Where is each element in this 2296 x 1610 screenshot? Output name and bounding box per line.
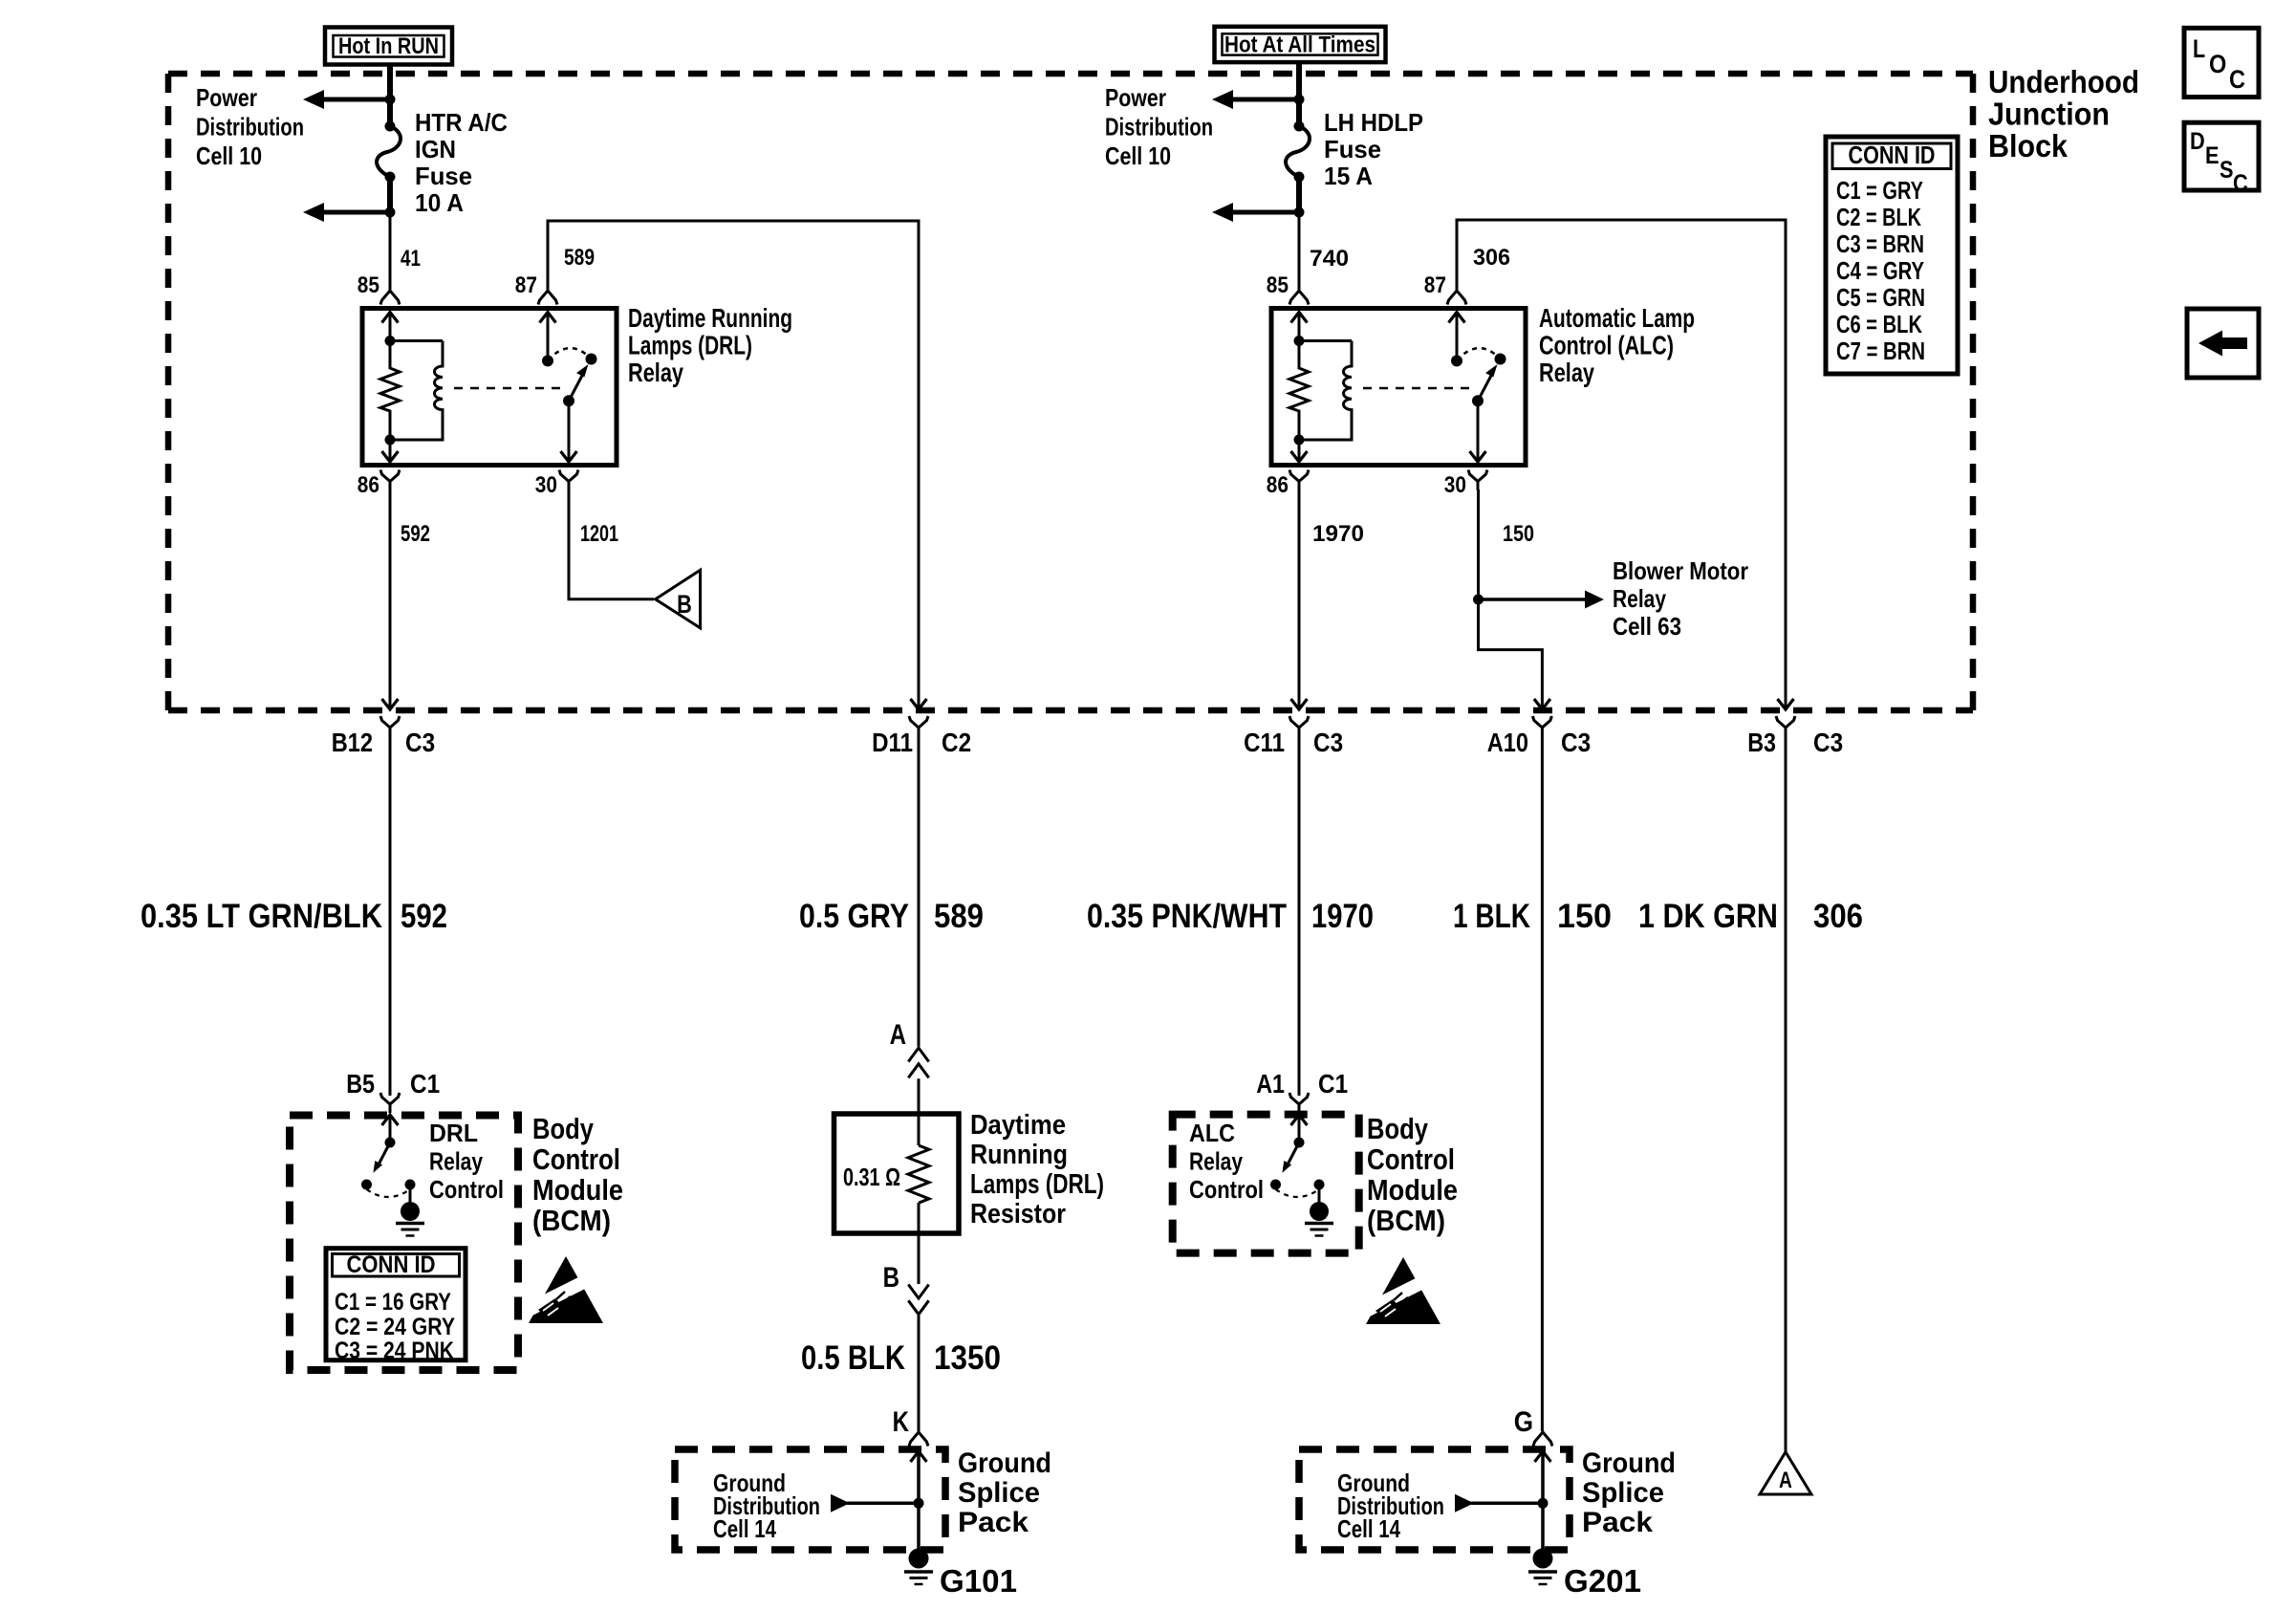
svg-text:HTR A/C: HTR A/C xyxy=(415,108,508,137)
svg-text:IGN: IGN xyxy=(415,135,456,163)
connector D11/C2 crossing xyxy=(909,699,928,736)
fuse HTR A/C IGN 10A with feed wire and power distribution taps xyxy=(303,63,401,305)
svg-text:A: A xyxy=(1779,1468,1792,1493)
svg-text:C3 = 24 PNK: C3 = 24 PNK xyxy=(335,1338,454,1364)
symbol ESD warning (left) xyxy=(529,1256,603,1323)
svg-text:C1 = GRY: C1 = GRY xyxy=(1836,176,1923,205)
connector C11/C3 crossing xyxy=(1289,699,1309,736)
wire 1350 segment below resistor xyxy=(918,1203,921,1284)
svg-text:Underhood: Underhood xyxy=(1988,64,2139,99)
symbol ESD warning (right) xyxy=(1366,1257,1440,1324)
svg-text:10 A: 10 A xyxy=(415,188,464,217)
svg-text:C1 = 16 GRY: C1 = 16 GRY xyxy=(335,1289,451,1316)
switch ALC relay control with ground xyxy=(1270,1115,1333,1236)
svg-text:ALC: ALC xyxy=(1189,1119,1235,1147)
connector A10/C3 crossing xyxy=(1532,699,1551,736)
svg-text:Distribution: Distribution xyxy=(196,113,304,141)
svg-text:0.35 LT GRN/BLK: 0.35 LT GRN/BLK xyxy=(141,898,382,935)
svg-text:C: C xyxy=(2233,170,2248,197)
module BCM (right) dashed box xyxy=(1173,1115,1359,1253)
connector B3/C3 crossing xyxy=(1776,699,1795,736)
svg-text:Control: Control xyxy=(429,1175,504,1204)
svg-text:0.5 GRY: 0.5 GRY xyxy=(799,898,909,935)
junction blower motor tap xyxy=(1473,595,1484,605)
wire 306 segment from ALC pin 87 up and across xyxy=(1457,220,1786,708)
svg-text:740: 740 xyxy=(1310,246,1349,272)
svg-text:Ground: Ground xyxy=(1582,1447,1676,1479)
wire 592 segment inside junction block xyxy=(389,490,392,708)
svg-text:B5: B5 xyxy=(346,1069,375,1099)
svg-text:Hot At All Times: Hot At All Times xyxy=(1224,33,1375,58)
svg-text:C1: C1 xyxy=(1318,1069,1348,1099)
connector A in-line chevrons xyxy=(908,1048,928,1077)
svg-text:Junction: Junction xyxy=(1988,97,2110,132)
svg-text:Power: Power xyxy=(196,83,257,112)
svg-text:C5 = GRN: C5 = GRN xyxy=(1836,283,1925,312)
wire 1350 segment to ground splice pack xyxy=(918,1316,921,1431)
wire 306 segment below junction block xyxy=(1785,736,1787,1452)
svg-text:Resistor: Resistor xyxy=(970,1199,1066,1229)
svg-text:C2 = BLK: C2 = BLK xyxy=(1836,203,1921,231)
wire 589 segment from pin 87 up and across xyxy=(548,221,919,708)
svg-text:589: 589 xyxy=(934,898,984,935)
svg-text:Control: Control xyxy=(1367,1142,1455,1176)
svg-text:C3: C3 xyxy=(1313,728,1343,757)
svg-text:C3 = BRN: C3 = BRN xyxy=(1836,229,1924,258)
svg-text:Cell 14: Cell 14 xyxy=(1337,1514,1400,1543)
svg-text:B: B xyxy=(677,590,692,619)
svg-text:O: O xyxy=(2209,50,2226,78)
svg-text:C3: C3 xyxy=(1561,728,1591,757)
svg-text:41: 41 xyxy=(401,246,421,272)
svg-text:A: A xyxy=(890,1019,906,1051)
svg-text:LH HDLP: LH HDLP xyxy=(1324,108,1423,137)
svg-text:1201: 1201 xyxy=(580,521,618,547)
svg-text:15 A: 15 A xyxy=(1324,162,1373,190)
node Hot In RUN box xyxy=(325,28,452,65)
svg-text:Daytime: Daytime xyxy=(970,1110,1066,1141)
svg-text:B: B xyxy=(883,1262,899,1294)
svg-text:Relay: Relay xyxy=(1613,584,1666,613)
wire 592 segment below junction block xyxy=(389,736,392,1096)
svg-text:85: 85 xyxy=(1267,272,1289,298)
svg-text:592: 592 xyxy=(401,521,430,547)
svg-text:Relay: Relay xyxy=(1189,1147,1243,1176)
svg-text:G101: G101 xyxy=(940,1563,1017,1599)
connector flag B triangle xyxy=(656,570,701,628)
wire 589 segment into resistor xyxy=(918,1078,921,1145)
svg-text:Distribution: Distribution xyxy=(1105,113,1213,141)
CONN ID table (underhood junction block) xyxy=(1826,137,1958,374)
svg-text:87: 87 xyxy=(1424,272,1446,298)
svg-text:Cell 10: Cell 10 xyxy=(196,141,262,170)
svg-text:D: D xyxy=(2190,128,2205,155)
svg-text:CONN ID: CONN ID xyxy=(1849,141,1936,169)
svg-text:150: 150 xyxy=(1557,898,1612,935)
svg-text:C: C xyxy=(2229,65,2245,94)
svg-text:Running: Running xyxy=(970,1140,1068,1170)
symbol LOC box xyxy=(2184,28,2259,97)
wire 589 segment below junction block xyxy=(918,736,921,1047)
wire 150 segment below junction block xyxy=(1541,736,1544,1431)
svg-text:B12: B12 xyxy=(332,728,373,757)
svg-text:Automatic Lamp: Automatic Lamp xyxy=(1539,303,1695,333)
svg-text:Module: Module xyxy=(1367,1173,1458,1207)
wire blower motor relay arrow xyxy=(1479,591,1605,609)
svg-text:K: K xyxy=(893,1406,910,1438)
svg-text:B3: B3 xyxy=(1747,728,1776,757)
svg-text:G: G xyxy=(1514,1406,1533,1438)
ground splice pack (left) xyxy=(675,1449,945,1584)
relay ALC (Automatic Lamp Control) xyxy=(1271,291,1526,490)
svg-text:Splice: Splice xyxy=(1582,1477,1664,1509)
svg-text:C3: C3 xyxy=(1813,728,1843,757)
svg-text:30: 30 xyxy=(1444,472,1466,498)
svg-text:Control: Control xyxy=(1189,1175,1264,1204)
svg-text:Body: Body xyxy=(1367,1112,1429,1145)
underhood junction block dashed border xyxy=(168,74,1973,710)
svg-text:Cell 14: Cell 14 xyxy=(713,1514,776,1543)
svg-text:(BCM): (BCM) xyxy=(532,1204,611,1237)
svg-text:306: 306 xyxy=(1473,245,1510,271)
wire 1201 segment from pin 30 down and right to B flag xyxy=(569,490,654,599)
svg-text:0.5 BLK: 0.5 BLK xyxy=(801,1339,905,1377)
svg-text:CONN ID: CONN ID xyxy=(347,1251,436,1278)
svg-text:150: 150 xyxy=(1503,521,1534,547)
svg-text:A10: A10 xyxy=(1487,728,1528,757)
svg-text:Control: Control xyxy=(532,1142,620,1176)
svg-text:Fuse: Fuse xyxy=(1324,135,1381,163)
svg-text:Power: Power xyxy=(1105,83,1166,112)
connector B12/C3 crossing xyxy=(380,699,400,736)
wire 1970 segment inside junction block xyxy=(1298,490,1301,708)
symbol back-arrow box xyxy=(2187,309,2259,378)
module BCM (left) dashed box xyxy=(290,1116,518,1371)
svg-text:Relay: Relay xyxy=(1539,358,1594,387)
svg-text:Body: Body xyxy=(532,1112,595,1145)
connector B5/C1 chevron xyxy=(380,1093,400,1113)
svg-text:Fuse: Fuse xyxy=(415,162,472,190)
svg-text:(BCM): (BCM) xyxy=(1367,1204,1445,1237)
connector flag A triangle xyxy=(1760,1452,1811,1494)
svg-text:Hot In RUN: Hot In RUN xyxy=(338,33,439,59)
svg-text:C11: C11 xyxy=(1244,728,1285,757)
svg-text:C1: C1 xyxy=(410,1069,440,1099)
svg-text:A1: A1 xyxy=(1256,1069,1285,1099)
symbol DESC box xyxy=(2184,122,2259,190)
svg-text:87: 87 xyxy=(515,272,537,298)
svg-text:0.31 Ω: 0.31 Ω xyxy=(843,1163,900,1191)
svg-text:C2: C2 xyxy=(942,728,971,757)
svg-text:D11: D11 xyxy=(872,728,913,757)
svg-text:C4 = GRY: C4 = GRY xyxy=(1836,256,1924,285)
node Hot At All Times box xyxy=(1215,27,1386,62)
svg-text:Lamps (DRL): Lamps (DRL) xyxy=(628,331,752,360)
svg-text:1970: 1970 xyxy=(1312,521,1364,547)
svg-text:E: E xyxy=(2205,142,2220,169)
ground splice pack (right) xyxy=(1299,1449,1570,1584)
svg-text:Block: Block xyxy=(1988,128,2069,163)
resistor DRL 0.31 ohm box and zigzag xyxy=(834,1114,960,1233)
switch DRL relay control with ground xyxy=(361,1115,424,1236)
svg-text:C2 = 24 GRY: C2 = 24 GRY xyxy=(335,1314,455,1340)
svg-text:0.35 PNK/WHT: 0.35 PNK/WHT xyxy=(1087,898,1287,935)
svg-text:Relay: Relay xyxy=(429,1147,483,1176)
svg-text:Pack: Pack xyxy=(1582,1507,1653,1538)
svg-text:306: 306 xyxy=(1813,898,1863,935)
svg-text:Relay: Relay xyxy=(628,358,683,387)
svg-text:589: 589 xyxy=(564,245,595,271)
svg-text:S: S xyxy=(2220,157,2234,184)
svg-text:1970: 1970 xyxy=(1311,898,1374,935)
connector K chevron xyxy=(909,1432,928,1447)
svg-text:85: 85 xyxy=(357,272,379,298)
CONN ID table (BCM) xyxy=(326,1249,466,1360)
svg-text:Lamps (DRL): Lamps (DRL) xyxy=(970,1169,1104,1200)
connector A1/C1 chevron xyxy=(1289,1093,1309,1113)
svg-text:C3: C3 xyxy=(405,728,435,757)
svg-text:Pack: Pack xyxy=(958,1507,1029,1538)
connector G chevron xyxy=(1533,1432,1552,1447)
svg-text:592: 592 xyxy=(401,898,447,935)
svg-text:30: 30 xyxy=(535,472,557,498)
svg-text:Ground: Ground xyxy=(958,1447,1051,1479)
svg-text:Cell 63: Cell 63 xyxy=(1613,612,1681,641)
fuse LH HDLP 15A with feed wire and power distribution taps xyxy=(1212,63,1310,305)
svg-text:Blower Motor: Blower Motor xyxy=(1613,556,1748,585)
wire 150 segment with jog xyxy=(1479,490,1543,708)
wire 1970 segment below junction block xyxy=(1298,736,1301,1096)
relay DRL (Daytime Running Lamps) xyxy=(362,291,617,490)
connector B in-line chevrons xyxy=(908,1285,928,1315)
svg-text:L: L xyxy=(2193,34,2205,63)
svg-text:1350: 1350 xyxy=(934,1339,1001,1377)
svg-text:C6 = BLK: C6 = BLK xyxy=(1836,310,1922,338)
svg-text:Module: Module xyxy=(532,1173,623,1207)
svg-text:G201: G201 xyxy=(1564,1563,1641,1599)
svg-text:DRL: DRL xyxy=(429,1119,478,1147)
svg-text:Cell 10: Cell 10 xyxy=(1105,141,1171,170)
svg-text:1 BLK: 1 BLK xyxy=(1453,898,1530,935)
svg-text:Control (ALC): Control (ALC) xyxy=(1539,331,1674,360)
svg-text:86: 86 xyxy=(1267,472,1289,498)
svg-text:C7 = BRN: C7 = BRN xyxy=(1836,337,1925,365)
svg-text:Daytime Running: Daytime Running xyxy=(628,303,792,333)
svg-text:1 DK GRN: 1 DK GRN xyxy=(1638,898,1778,935)
svg-text:86: 86 xyxy=(357,472,379,498)
svg-text:Splice: Splice xyxy=(958,1477,1040,1509)
